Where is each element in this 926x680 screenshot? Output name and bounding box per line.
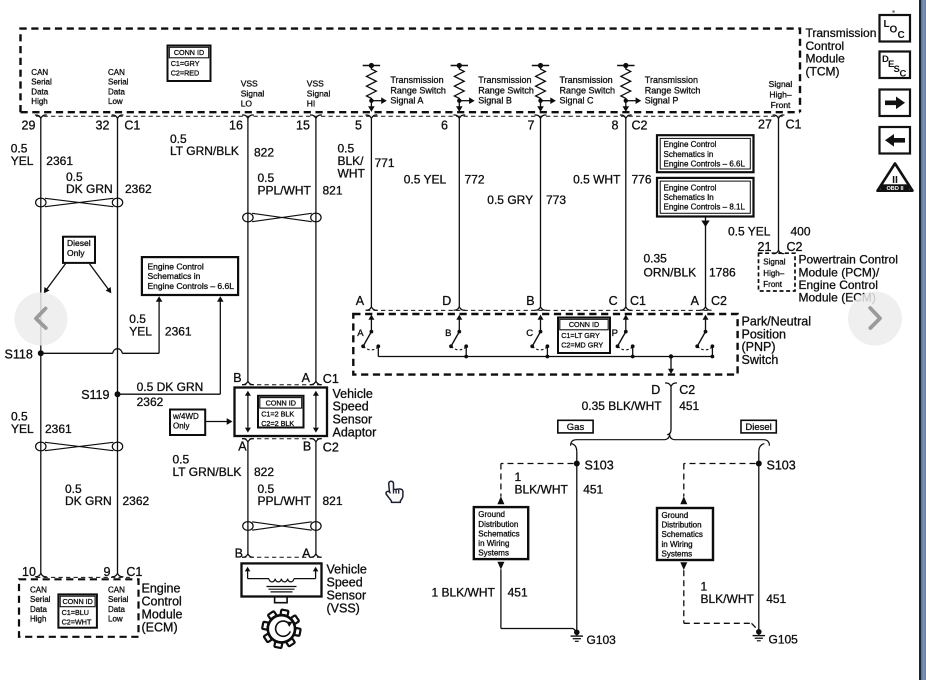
svg-text:2362: 2362	[123, 494, 150, 508]
svg-text:Vehicle: Vehicle	[327, 563, 367, 577]
wire: internal pull-up bar	[617, 65, 634, 67]
wire 776 (0.5 WHT) pin8 to PNP C	[625, 118, 627, 306]
svg-text:CAN: CAN	[30, 586, 47, 595]
resistor: transmission range switch pull-up at pin x=540.5	[536, 66, 546, 102]
CONN ID box (adaptor): C1=2 BLK C2=2 BLK	[258, 396, 304, 428]
svg-text:S119: S119	[81, 388, 109, 402]
svg-text:16: 16	[229, 118, 243, 132]
splice S103 (diesel)	[756, 461, 762, 467]
VSS mounting tab	[275, 597, 288, 603]
svg-text:Serial: Serial	[108, 78, 129, 87]
svg-text:0.5 YEL: 0.5 YEL	[728, 225, 771, 239]
svg-text:(VSS): (VSS)	[327, 601, 360, 615]
wire: drop to pin	[370, 101, 372, 107]
svg-text:A: A	[356, 294, 365, 308]
svg-text:Systems: Systems	[478, 548, 509, 557]
Ground Distribution Schematics in Wiring Systems box (gas)	[474, 507, 528, 559]
wire 2361 lower (0.5 YEL) S118 to ECM pin10	[40, 353, 42, 573]
wire: Ground Distribution to G103 (gas)	[497, 562, 504, 570]
wire 451 diesel branch: S103 to G105	[758, 452, 760, 632]
wire 1786 (0.35 ORN/BLK) schematics ref to PNP	[701, 221, 709, 228]
node: resistor top junction	[457, 63, 462, 68]
svg-text:D: D	[442, 294, 451, 308]
node: resistor bottom junction	[624, 99, 628, 103]
PNP switch contact A	[368, 315, 374, 320]
svg-text:Ground: Ground	[662, 511, 689, 520]
wire 451 gas branch: S103 to G103	[576, 452, 578, 633]
svg-text:VSS: VSS	[307, 79, 324, 89]
node: resistor bottom junction	[369, 99, 373, 103]
svg-text:C: C	[526, 328, 533, 339]
svg-text:S118: S118	[5, 347, 33, 361]
svg-text:822: 822	[254, 465, 274, 479]
svg-text:D: D	[651, 383, 660, 397]
svg-text:G105: G105	[769, 632, 799, 646]
svg-text:C1=2 BLK: C1=2 BLK	[261, 409, 294, 418]
resistor: transmission range switch pull-up at pin x=625.8	[621, 66, 631, 102]
svg-text:Data: Data	[31, 87, 48, 96]
svg-text:CAN: CAN	[108, 586, 125, 595]
svg-text:in Wiring: in Wiring	[478, 539, 509, 548]
hand cursor	[386, 481, 403, 502]
svg-text:PPL/WHT: PPL/WHT	[258, 494, 312, 508]
svg-text:27: 27	[758, 118, 772, 132]
svg-text:ORN/BLK: ORN/BLK	[644, 266, 697, 280]
wire: drop to pin	[540, 101, 542, 107]
svg-text:High–: High–	[769, 90, 791, 100]
svg-text:Engine Controls – 8.1L: Engine Controls – 8.1L	[664, 203, 746, 212]
svg-text:G103: G103	[587, 633, 617, 647]
svg-text:2361: 2361	[45, 422, 72, 436]
svg-text:Engine Control: Engine Control	[664, 140, 717, 149]
svg-text:C: C	[900, 69, 907, 80]
svg-text:High: High	[30, 615, 46, 624]
svg-text:Engine: Engine	[142, 582, 181, 596]
wire 822 upper (0.5 LT GRN/BLK) pin16 to adaptor	[247, 118, 249, 381]
svg-text:B: B	[445, 328, 451, 339]
svg-text:6: 6	[441, 118, 448, 132]
svg-text:C1=GRY: C1=GRY	[171, 59, 200, 68]
node: resistor bottom junction	[538, 99, 542, 103]
svg-text:S103: S103	[767, 458, 796, 472]
svg-text:Engine Control: Engine Control	[664, 183, 717, 192]
Signal High-Front dashed box (PCM)	[759, 253, 796, 291]
Transmission Control Module (TCM) dashed outline	[21, 29, 801, 113]
svg-text:771: 771	[375, 156, 395, 170]
svg-text:Data: Data	[30, 605, 47, 614]
svg-text:YEL: YEL	[11, 422, 34, 436]
svg-text:LO: LO	[241, 98, 253, 108]
svg-text:C2: C2	[323, 441, 339, 455]
svg-text:29: 29	[22, 118, 36, 132]
PNP switch contact B	[456, 315, 462, 320]
wire: signal tap to right	[626, 100, 636, 102]
svg-text:Signal: Signal	[241, 88, 265, 98]
svg-text:Signal B: Signal B	[478, 96, 512, 106]
svg-text:32: 32	[96, 118, 110, 132]
svg-text:0.5 DK GRN: 0.5 DK GRN	[137, 380, 204, 394]
wire 2362 upper (0.5 DK GRN) pin32 to S119	[117, 118, 119, 394]
svg-text:Serial: Serial	[30, 595, 51, 604]
wire 2362 lower (0.5 DK GRN) S119 to ECM pin9	[117, 394, 119, 573]
svg-text:A: A	[357, 328, 364, 339]
svg-text:Distribution: Distribution	[478, 520, 518, 529]
svg-text:CONN ID: CONN ID	[569, 320, 599, 329]
wire: internal pull-up bar	[363, 65, 380, 67]
svg-text:Engine Controls – 6.6L: Engine Controls – 6.6L	[148, 281, 235, 291]
nav circle previous (left)	[15, 293, 68, 346]
Ground Distribution Schematics in Wiring Systems box (diesel)	[657, 508, 713, 560]
svg-text:B: B	[303, 440, 311, 454]
w/4WD Only callout box	[170, 410, 205, 436]
Vehicle Speed Sensor Adaptor box	[235, 388, 328, 437]
svg-text:Transmission: Transmission	[645, 75, 698, 85]
svg-text:VSS: VSS	[241, 79, 258, 89]
wire curl to diesel branch	[759, 444, 765, 452]
adaptor internal pass-through arrows	[245, 391, 251, 396]
resistor: transmission range switch pull-up at pin x=459.3	[454, 66, 464, 102]
Vehicle Speed Sensor (VSS) box	[242, 563, 322, 596]
svg-text:w/4WD: w/4WD	[172, 412, 199, 421]
CONN ID box (PNP): C1=LT GRY C2=MD GRY	[558, 318, 610, 354]
svg-text:2362: 2362	[125, 182, 152, 196]
svg-text:C: C	[898, 30, 905, 41]
svg-text:821: 821	[323, 494, 343, 508]
wire: signal tap to right	[459, 100, 469, 102]
svg-text:C2: C2	[711, 294, 727, 308]
svg-text:C2=WHT: C2=WHT	[62, 618, 92, 627]
toolbar icon forward arrow	[880, 90, 911, 117]
wire: S118 branch to 6.6L reference (0.5 YEL 2361) with hop over wire B	[41, 352, 113, 354]
svg-text:Schematics In: Schematics In	[664, 193, 714, 202]
PNP switch contact C	[538, 315, 544, 320]
Engine Control Module (ECM) dashed box	[19, 579, 139, 637]
svg-text:Range Switch: Range Switch	[390, 85, 446, 95]
svg-text:Park/Neutral: Park/Neutral	[742, 314, 811, 328]
wire: PNP bus to pin D	[670, 357, 672, 370]
VSS internal pickup coil	[245, 567, 251, 572]
wire: drop to pin	[458, 101, 460, 107]
svg-text:Engine Controls – 6.6L: Engine Controls – 6.6L	[664, 159, 746, 168]
svg-text:Engine Control: Engine Control	[148, 261, 204, 271]
svg-text:Signal C: Signal C	[560, 96, 595, 106]
arrow: w/4WD Only to VSS adaptor	[205, 421, 227, 423]
ground G103	[574, 630, 580, 636]
svg-text:LT GRN/BLK: LT GRN/BLK	[173, 465, 242, 479]
svg-text:Control: Control	[142, 595, 182, 609]
wire: PNP common bus	[378, 356, 712, 358]
CONN ID box (TCM): C1=GRY C2=RED	[168, 46, 211, 82]
dashed wire: Ground Distribution to G105 (1 BLK/WHT 451)	[680, 562, 687, 570]
label box Gas	[558, 420, 593, 433]
twisted pair symbol (VSS pair upper)	[243, 213, 253, 222]
svg-text:773: 773	[546, 193, 566, 207]
wire 773 (0.5 GRY) pin7 to PNP B	[540, 118, 542, 306]
splice S118	[38, 350, 44, 356]
toolbar icon LOC	[880, 15, 911, 42]
wire: internal pull-up bar	[532, 65, 549, 67]
svg-text:Diesel: Diesel	[67, 238, 91, 248]
svg-text:Sensor: Sensor	[333, 413, 373, 427]
svg-text:WHT: WHT	[338, 167, 366, 181]
node: resistor top junction	[369, 63, 374, 68]
PNP switch contact P	[623, 315, 629, 320]
svg-text:Module: Module	[142, 607, 183, 621]
wire 400 (0.5 YEL) pin27 to PCM pin21	[778, 118, 780, 250]
svg-text:II: II	[892, 174, 898, 186]
svg-text:Diesel: Diesel	[745, 422, 771, 433]
svg-text:Signal A: Signal A	[390, 96, 423, 106]
svg-text:C2=MD GRY: C2=MD GRY	[561, 341, 603, 350]
svg-text:0.5 GRY: 0.5 GRY	[487, 193, 533, 207]
svg-text:(TCM): (TCM)	[806, 64, 840, 78]
svg-text:A: A	[302, 547, 311, 561]
svg-text:Schematics in: Schematics in	[148, 271, 201, 281]
node: resistor top junction	[538, 63, 543, 68]
wire 451 (0.35 BLK/WHT) PNP D to splice break-out	[670, 386, 672, 429]
speck near toolbar	[892, 10, 895, 13]
svg-text:Schematics: Schematics	[478, 529, 519, 538]
svg-text:Speed: Speed	[327, 576, 363, 590]
svg-text:15: 15	[296, 118, 310, 132]
svg-text:Systems: Systems	[662, 549, 693, 558]
wire: signal tap to right	[371, 100, 381, 102]
svg-text:S103: S103	[585, 458, 614, 472]
svg-text:Low: Low	[108, 97, 123, 106]
svg-text:Transmission: Transmission	[390, 75, 443, 85]
node: PNP bus output junction	[669, 354, 673, 358]
wire: internal pull-up bar	[451, 65, 468, 67]
svg-text:1786: 1786	[709, 266, 736, 280]
svg-text:B: B	[526, 294, 534, 308]
twisted pair symbol (VSS pair lower)	[243, 522, 253, 531]
wire 2361 upper (0.5 YEL) pin29 to S118	[40, 118, 42, 353]
svg-text:Speed: Speed	[333, 400, 369, 414]
svg-text:0.5 WHT: 0.5 WHT	[573, 173, 621, 187]
svg-text:Adaptor: Adaptor	[333, 426, 377, 440]
svg-text:CONN ID: CONN ID	[266, 399, 296, 408]
label box Diesel	[741, 420, 776, 433]
toolbar icon back arrow	[880, 127, 911, 154]
twisted pair symbol (CAN pair lower)	[36, 442, 46, 451]
svg-text:C1=LT GRY: C1=LT GRY	[561, 331, 600, 340]
node: resistor bottom junction	[457, 99, 461, 103]
svg-text:821: 821	[323, 184, 343, 198]
svg-text:Serial: Serial	[108, 595, 129, 604]
wire 772 (0.5 YEL) pin6 to PNP D	[458, 118, 460, 306]
svg-text:High: High	[31, 97, 47, 106]
svg-text:C2=2 BLK: C2=2 BLK	[261, 419, 294, 428]
svg-text:Low: Low	[108, 615, 123, 624]
svg-text:Distribution: Distribution	[662, 521, 702, 530]
svg-text:CONN ID: CONN ID	[62, 597, 92, 606]
wire 821 upper (0.5 PPL/WHT) pin15 to adaptor	[315, 118, 317, 381]
svg-text:451: 451	[508, 585, 528, 599]
svg-text:Gas: Gas	[567, 422, 585, 433]
svg-text:Range Switch: Range Switch	[645, 85, 701, 95]
Engine Control Schematics in Engine Controls - 6.6L reference box (left)	[142, 257, 238, 295]
svg-text:C1: C1	[124, 118, 140, 132]
svg-text:Range Switch: Range Switch	[560, 85, 616, 95]
connector C1/C2 fine dashed line (TCM bottom)	[36, 115, 784, 117]
svg-text:21: 21	[758, 240, 772, 254]
svg-text:HI: HI	[307, 98, 316, 108]
svg-text:A: A	[238, 440, 247, 454]
svg-text:5: 5	[355, 118, 362, 132]
svg-text:Data: Data	[108, 87, 125, 96]
svg-text:1 BLK/WHT: 1 BLK/WHT	[432, 585, 496, 599]
wire curl to gas branch	[571, 444, 577, 452]
svg-text:Ground: Ground	[478, 510, 505, 519]
Engine Control Schematics In Engine Controls - 8.1L reference box (right)	[657, 178, 754, 217]
svg-text:776: 776	[632, 173, 652, 187]
svg-text:Data: Data	[108, 605, 125, 614]
svg-text:B: B	[235, 547, 243, 561]
svg-text:YEL: YEL	[129, 325, 152, 339]
svg-text:Only: Only	[173, 422, 189, 431]
svg-text:High–: High–	[763, 269, 784, 278]
svg-text:BLK/WHT: BLK/WHT	[515, 483, 569, 497]
svg-text:C: C	[609, 294, 618, 308]
splice S119	[115, 391, 121, 397]
svg-text:Serial: Serial	[31, 78, 52, 87]
twisted pair symbol (CAN pair upper)	[36, 198, 46, 207]
toolbar icon OBD II warning triangle	[878, 164, 913, 192]
svg-text:Signal: Signal	[769, 79, 793, 89]
svg-text:(PNP): (PNP)	[742, 340, 776, 354]
svg-text:O: O	[890, 25, 898, 36]
svg-text:2361: 2361	[46, 154, 73, 168]
wire: signal tap to right	[541, 100, 551, 102]
VSS reluctor gear icon	[262, 609, 301, 648]
wire: drop to pin	[625, 101, 627, 107]
svg-text:451: 451	[766, 592, 786, 606]
svg-text:A: A	[302, 371, 311, 385]
ground G105	[756, 629, 762, 635]
svg-text:0.35: 0.35	[644, 252, 668, 266]
node: resistor top junction	[623, 63, 628, 68]
svg-text:(ECM): (ECM)	[142, 620, 178, 634]
svg-text:Signal P: Signal P	[645, 96, 679, 106]
svg-text:DK GRN: DK GRN	[66, 182, 113, 196]
svg-text:LT GRN/BLK: LT GRN/BLK	[170, 144, 239, 158]
svg-text:Vehicle: Vehicle	[333, 387, 373, 401]
Engine Control Schematics in Engine Controls - 6.6L reference box (right)	[657, 135, 754, 172]
svg-text:C1: C1	[630, 294, 646, 308]
svg-text:C1=BLU: C1=BLU	[62, 608, 89, 617]
svg-text:772: 772	[465, 173, 485, 187]
svg-text:7: 7	[528, 118, 535, 132]
svg-text:Transmission: Transmission	[560, 75, 613, 85]
svg-text:Sensor: Sensor	[327, 588, 367, 602]
svg-text:10: 10	[22, 565, 36, 579]
harness split brace	[571, 434, 770, 446]
svg-text:2361: 2361	[165, 325, 192, 339]
svg-text:Signal: Signal	[307, 88, 331, 98]
wire 822 lower (0.5 LT GRN/BLK) adaptor to VSS	[247, 442, 249, 554]
svg-text:Front: Front	[763, 280, 782, 289]
Park/Neutral Position (PNP) Switch dashed box	[353, 314, 737, 375]
svg-text:CAN: CAN	[31, 68, 48, 77]
CONN ID box (ECM): C1=BLU C2=WHT	[58, 594, 97, 627]
svg-text:CAN: CAN	[108, 68, 125, 77]
arrow: Diesel Only to wire 2361	[47, 264, 66, 290]
svg-text:0.35 BLK/WHT: 0.35 BLK/WHT	[582, 399, 663, 413]
arrow: Diesel Only to wire 2362	[90, 264, 109, 290]
svg-text:451: 451	[679, 399, 699, 413]
svg-text:0.5 YEL: 0.5 YEL	[404, 173, 447, 187]
svg-text:BLK/WHT: BLK/WHT	[701, 592, 755, 606]
svg-text:Signal: Signal	[763, 258, 785, 267]
svg-text:C2: C2	[632, 118, 648, 132]
svg-text:822: 822	[254, 146, 274, 160]
svg-text:YEL: YEL	[11, 154, 34, 168]
wire 821 lower (0.5 PPL/WHT) adaptor to VSS	[315, 442, 317, 554]
nav circle next (right)	[848, 292, 902, 346]
svg-text:A: A	[691, 294, 700, 308]
svg-text:C2: C2	[679, 383, 695, 397]
svg-text:C2=RED: C2=RED	[171, 69, 200, 78]
PNP switch contact (unlabeled)	[703, 315, 709, 320]
svg-text:400: 400	[791, 225, 811, 239]
svg-text:DK GRN: DK GRN	[65, 494, 112, 508]
svg-text:C1: C1	[323, 372, 339, 386]
svg-text:CONN ID: CONN ID	[174, 48, 204, 57]
svg-text:8: 8	[612, 118, 619, 132]
dashed wire: S103 to Ground Distribution (gas, 1 BLK/WHT 451)	[501, 463, 574, 465]
svg-text:Position: Position	[742, 327, 787, 341]
svg-text:Front: Front	[771, 100, 791, 110]
svg-text:in Wiring: in Wiring	[662, 540, 693, 549]
wire: S119 branch to 6.6L reference (0.5 DK GRN 2362)	[118, 393, 221, 395]
svg-text:Range Switch: Range Switch	[478, 85, 534, 95]
wire 771 (0.5 BLK/WHT) pin5 to PNP A	[370, 118, 372, 306]
resistor: transmission range switch pull-up at pin x=371.4	[367, 66, 377, 102]
svg-text:OBD II: OBD II	[886, 186, 904, 192]
svg-text:2362: 2362	[137, 395, 164, 409]
splice S103 (gas)	[574, 461, 580, 467]
svg-text:P: P	[612, 328, 618, 339]
svg-text:PPL/WHT: PPL/WHT	[258, 184, 312, 198]
toolbar icon DESC	[880, 52, 911, 80]
svg-text:Schematics: Schematics	[662, 530, 703, 539]
svg-text:Schematics in: Schematics in	[664, 150, 714, 159]
dashed wire: S103 to Ground Distribution (diesel)	[684, 463, 756, 465]
svg-text:451: 451	[583, 483, 603, 497]
Diesel Only callout box	[63, 237, 95, 263]
svg-text:Transmission: Transmission	[478, 75, 531, 85]
svg-text:C1: C1	[786, 118, 802, 132]
svg-text:Switch: Switch	[742, 353, 779, 367]
svg-text:Only: Only	[67, 248, 85, 258]
svg-text:B: B	[233, 371, 241, 385]
